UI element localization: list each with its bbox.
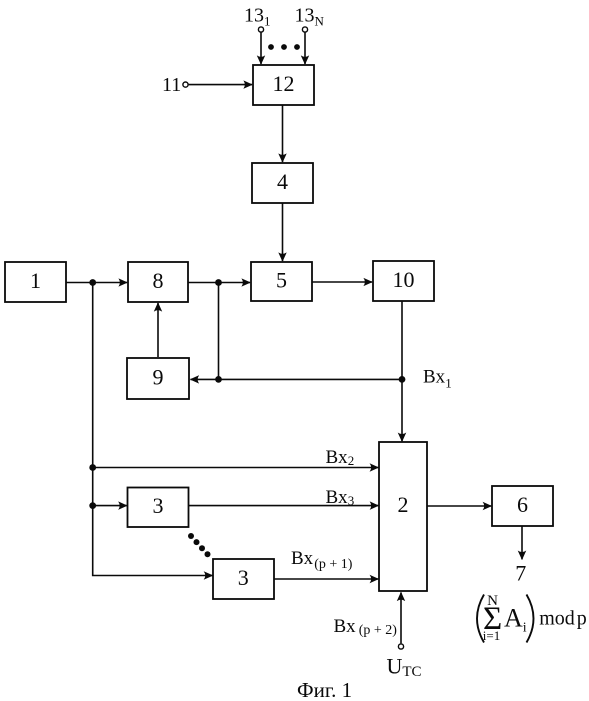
terminal 11 xyxy=(183,82,188,87)
junction node Bx1 xyxy=(399,376,406,383)
block 4 xyxy=(252,163,313,203)
wire 6 to output 7 xyxy=(521,526,523,559)
block 12 xyxy=(253,65,314,105)
wire 13_1 to block 12 xyxy=(260,33,262,65)
terminal U_TC xyxy=(398,644,403,649)
svg-text:6: 6 xyxy=(517,492,528,517)
wire 8 to 5 xyxy=(188,282,250,284)
svg-text:7: 7 xyxy=(515,561,526,586)
svg-text:Фиг. 1: Фиг. 1 xyxy=(297,678,352,701)
block 1 xyxy=(5,262,66,302)
wire left trunk down from 1-8 junction xyxy=(93,283,213,576)
wire 4 to 5 xyxy=(282,203,284,261)
wire 9 to 8 xyxy=(157,303,159,357)
junction node at 3a input xyxy=(89,502,96,509)
block 9 xyxy=(127,358,189,399)
svg-text:9: 9 xyxy=(153,364,164,389)
block 10 xyxy=(373,261,434,301)
svg-text:modp: modp xyxy=(539,608,587,630)
block 3a xyxy=(128,488,189,528)
svg-text:10: 10 xyxy=(393,267,415,292)
svg-text:11: 11 xyxy=(162,74,181,96)
svg-text:8: 8 xyxy=(153,268,164,293)
wire 3a to block 2 (Bx3) xyxy=(189,505,379,507)
terminal 13_N xyxy=(302,27,307,32)
wire 3b to block 2 (Bx p+1) xyxy=(274,578,378,580)
wire 10 down to block 2 xyxy=(401,301,403,441)
wire 12 to 4 xyxy=(282,105,284,162)
svg-text:5: 5 xyxy=(276,267,287,292)
wire horizontal into 9 xyxy=(191,378,403,380)
svg-text:i=1: i=1 xyxy=(483,628,500,643)
wire 1 to 8 xyxy=(66,282,127,284)
wire 13_N to block 12 xyxy=(304,33,306,65)
wire trunk to 3a xyxy=(93,505,127,507)
block 8 xyxy=(128,262,188,302)
wire Bx2 into block 2 xyxy=(93,467,379,469)
formula (sum A_i) mod p xyxy=(477,593,587,643)
block 2 xyxy=(379,442,427,591)
wire 5 to 10 xyxy=(312,281,372,283)
wire U_TC up into block 2 xyxy=(400,593,402,644)
junction node on wire 1-8 xyxy=(89,279,96,286)
svg-text:3: 3 xyxy=(153,493,164,518)
svg-text:1: 1 xyxy=(30,268,41,293)
svg-text:12: 12 xyxy=(273,71,295,96)
terminal 13_1 xyxy=(258,27,263,32)
block 5 xyxy=(251,262,312,301)
svg-text:4: 4 xyxy=(277,169,288,194)
wire 11 to block 12 xyxy=(189,84,252,86)
svg-text:N: N xyxy=(487,593,498,609)
junction node Bx2 xyxy=(89,464,96,471)
ellipsis dots between 3a and 3b xyxy=(188,533,211,557)
svg-text:3: 3 xyxy=(238,565,249,590)
wire 2 to 6 xyxy=(427,505,491,507)
block 6 xyxy=(492,486,553,526)
wire junction 8-5 down xyxy=(218,283,220,380)
junction node on wire 8-5 xyxy=(215,279,222,286)
block 3b xyxy=(213,559,274,599)
svg-text:2: 2 xyxy=(398,492,409,517)
ellipsis dots between 13 inputs xyxy=(268,44,300,50)
junction node above 9 input xyxy=(215,376,222,383)
